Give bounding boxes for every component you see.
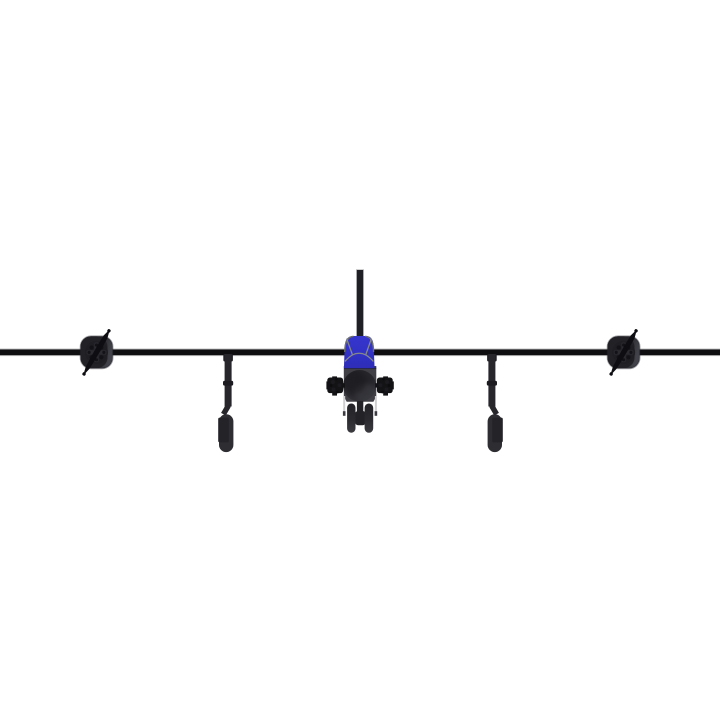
main left wheel [347, 404, 355, 433]
left engine hub [85, 341, 108, 364]
main gear door struts [343, 396, 345, 413]
engine intake blob [343, 370, 376, 402]
right nacelle [608, 328, 640, 377]
right strut collar [487, 381, 497, 386]
right outrigger strut [487, 354, 503, 452]
right outrigger wheel [488, 414, 502, 452]
left strut bend [223, 404, 228, 414]
right propeller blade [608, 328, 639, 377]
wing [0, 349, 720, 357]
canopy/fuselage junction shadow [344, 368, 376, 369]
left nacelle [81, 328, 113, 377]
left propeller blade [81, 328, 112, 377]
left strut collar [223, 381, 233, 386]
right engine hub [612, 341, 635, 364]
right strut bend [492, 404, 497, 414]
fuselage dark body [344, 366, 377, 402]
canopy (blue) [344, 336, 375, 368]
left gun pod [326, 376, 345, 395]
left outrigger strut [218, 354, 233, 452]
main right wheel [365, 404, 374, 433]
tail fin (vertical) [356, 269, 364, 338]
canopy gray corner frames [345, 336, 354, 352]
right gun pod [375, 376, 394, 395]
main gear strut [357, 401, 363, 413]
main gear axle [355, 411, 366, 425]
left outrigger wheel [219, 414, 233, 452]
canopy frame lines [347, 339, 353, 355]
